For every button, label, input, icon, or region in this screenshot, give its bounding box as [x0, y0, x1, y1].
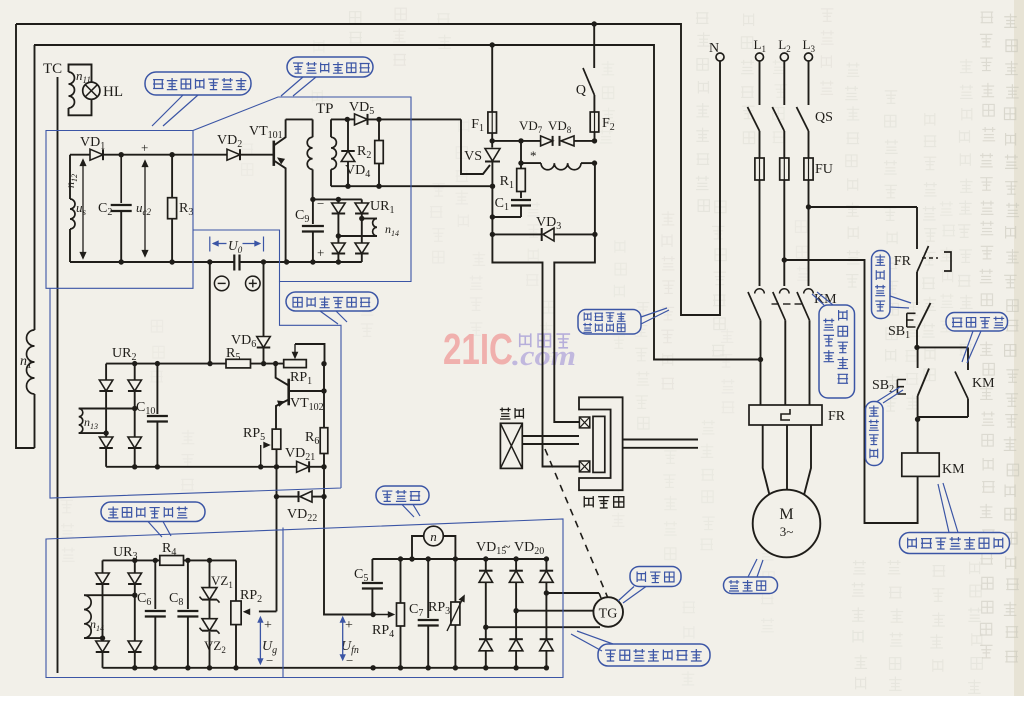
motor M	[753, 490, 821, 558]
fuse FU L1	[755, 158, 764, 180]
wire F1 drop	[490, 42, 495, 112]
wire TP sec top	[331, 118, 347, 120]
capacitor C8	[169, 560, 198, 667]
switch QS pole L3	[797, 107, 809, 158]
svg-text:+: +	[317, 245, 324, 260]
fuse F2	[590, 112, 615, 141]
zener VZ1	[200, 560, 233, 602]
thyristor VS	[464, 149, 500, 187]
wire preamp top rail	[106, 361, 226, 366]
wire feedback drop	[244, 449, 277, 615]
diode VD21	[285, 446, 324, 472]
rectifier UR2	[99, 346, 141, 467]
svg-text:FU: FU	[815, 162, 833, 177]
label Ug	[258, 617, 277, 669]
resistor R3	[168, 155, 194, 262]
label load	[500, 408, 524, 419]
wire L3 drop	[808, 61, 810, 105]
wire bottom rail	[103, 665, 550, 670]
svg-text:.com: .com	[512, 341, 576, 372]
wire L3 mid	[806, 180, 811, 286]
fuse F1	[471, 112, 496, 134]
capacitor C1	[490, 192, 531, 220]
wire clutch feed B	[492, 234, 579, 466]
diode VD5	[349, 100, 374, 125]
resistor R4	[160, 541, 184, 565]
capacitor U0 series	[234, 255, 286, 271]
svg-text:−: −	[346, 653, 353, 668]
capacitor C5	[354, 559, 383, 615]
capacitor C6	[137, 560, 166, 667]
wire given top rail	[103, 558, 160, 563]
resistor R2	[357, 119, 383, 186]
wire TC primary left	[16, 24, 35, 448]
diode VD8	[548, 118, 574, 146]
clutch body	[579, 397, 623, 490]
terminal L3	[803, 37, 816, 61]
svg-text:−: −	[317, 196, 324, 211]
resistor R5	[226, 346, 251, 368]
wire TG tap lower	[486, 626, 600, 628]
callout prime-mover label	[724, 559, 778, 594]
callout tach-gen label	[618, 567, 681, 604]
block bottom boxes	[46, 519, 563, 678]
wire TG tap upper	[546, 593, 601, 598]
svg-text:TP: TP	[316, 101, 334, 117]
wire VD22 row	[274, 494, 324, 499]
svg-text:QS: QS	[815, 110, 833, 125]
terminal L2	[778, 37, 790, 61]
wire preamp bottom rail	[106, 464, 297, 469]
polarity minus circle	[214, 276, 229, 291]
contactor KM main contacts	[748, 289, 837, 321]
potentiometer RP5	[243, 426, 281, 469]
wire KM coil return	[784, 260, 917, 523]
wire VD2 to VT101 base	[240, 154, 274, 156]
wire L2 mid	[782, 180, 787, 286]
terminal N	[709, 41, 724, 61]
wire F1 to VS	[490, 133, 495, 148]
resistor R6	[305, 391, 328, 467]
wire L1 drop	[759, 61, 761, 105]
wire to Ufn plus	[324, 497, 376, 618]
wire L1 second rail	[34, 45, 761, 360]
wire clutch feed A	[554, 234, 595, 422]
callout given-voltage label	[101, 502, 205, 537]
label U0 guides	[210, 237, 264, 256]
wire L2 drop	[783, 61, 785, 105]
transformer TP primary	[307, 101, 333, 199]
wire N top rail	[16, 24, 720, 315]
wire R4 right	[184, 558, 237, 563]
svg-text:KM: KM	[972, 376, 995, 391]
svg-text:Q: Q	[576, 83, 586, 98]
diode VD3	[536, 215, 561, 241]
diode VD4	[341, 119, 370, 186]
contact KM self-lock	[955, 372, 995, 418]
transformer TC core	[43, 61, 62, 673]
wire sawtooth top	[70, 152, 227, 157]
wire L2 low	[784, 320, 786, 405]
wire R6 low	[321, 464, 326, 499]
block phase-shift box	[193, 97, 411, 282]
svg-text:N: N	[709, 41, 719, 56]
wire VS cathode	[491, 186, 493, 234]
rectifier UR3	[96, 545, 142, 668]
label uc2 arrow	[136, 140, 151, 257]
svg-text:+: +	[264, 618, 272, 633]
svg-text:M: M	[779, 506, 793, 523]
svg-text:~: ~	[503, 540, 511, 555]
wire U0 plus drop	[261, 262, 266, 366]
switch Q	[576, 68, 595, 112]
wire trigger rail	[345, 117, 461, 122]
rectifier right leg	[540, 559, 554, 668]
label Ufn	[340, 617, 359, 669]
arrow RP4 wiper	[373, 612, 394, 618]
svg-text:FR: FR	[828, 409, 846, 424]
clutch armature	[593, 416, 605, 472]
wire VS gate	[461, 119, 490, 174]
rheostat RP3	[428, 559, 465, 668]
label VD15-20	[476, 540, 544, 557]
shaft load-clutch	[522, 436, 579, 444]
callout sawtooth label	[145, 72, 251, 126]
svg-text:3~: 3~	[780, 524, 794, 539]
block sawtooth box	[46, 131, 193, 289]
label FU	[815, 162, 833, 177]
clutch coil lower	[579, 461, 589, 472]
callout tach-meter label	[376, 486, 429, 517]
callout stop-button label	[872, 251, 912, 319]
diode VD22	[287, 491, 317, 524]
wire FR to SB1	[916, 272, 918, 305]
transistor VT102	[276, 364, 324, 430]
meter n	[412, 526, 455, 559]
rectifier mid leg	[509, 559, 522, 668]
wire diode row	[492, 138, 597, 143]
svg-text:+: +	[141, 140, 148, 155]
svg-text:n: n	[430, 529, 437, 544]
callout self-lock label	[946, 313, 1008, 364]
contact FR normally-closed	[894, 245, 951, 272]
label n12	[63, 174, 79, 188]
wire sawtooth bottom	[70, 259, 234, 264]
rectifier UR1	[332, 199, 395, 262]
svg-text:HL: HL	[103, 84, 123, 100]
capacitor C9	[295, 196, 324, 262]
wire tach top rail	[372, 556, 549, 561]
label us arrow	[76, 159, 87, 259]
coil KM	[902, 419, 965, 477]
svg-text:FR: FR	[894, 254, 912, 269]
callout speed-feedback label	[571, 631, 710, 666]
wire C9 UR1 top	[310, 197, 362, 202]
svg-text:−: −	[266, 653, 273, 668]
clutch coil upper	[579, 417, 589, 428]
wire TG tap middle	[516, 610, 593, 612]
fuse FU L2	[780, 158, 789, 180]
capacitor C2	[98, 155, 132, 262]
wire L1 low	[758, 320, 763, 405]
callout start-button label	[866, 387, 904, 466]
terminal L1	[754, 37, 766, 61]
transistor VT101	[249, 119, 286, 262]
transformer TP secondary	[331, 119, 336, 186]
diode VD6	[231, 333, 270, 364]
switch QS pole L2	[772, 107, 784, 158]
winding n14 trigger	[338, 219, 399, 239]
wire collector to TP	[286, 118, 313, 120]
fuse FU L3	[804, 158, 813, 180]
winding n1	[20, 45, 35, 448]
wire Q drop	[592, 21, 597, 68]
svg-text:TC: TC	[43, 61, 62, 77]
winding n11	[69, 65, 92, 116]
callout coil label	[900, 483, 1010, 554]
wire KM aux join	[918, 416, 968, 418]
resistor R1	[500, 163, 526, 191]
node SB1 out	[914, 345, 919, 350]
wire L3 low	[809, 320, 811, 405]
wire to KM aux	[917, 347, 968, 370]
button SB2 start	[872, 347, 929, 422]
mech link dashed	[545, 449, 608, 597]
wire VD3 right drop	[594, 162, 596, 234]
callout main-contact label	[812, 292, 855, 398]
svg-text:KM: KM	[942, 462, 965, 477]
capacitor C7	[409, 559, 439, 668]
wire preamp plus rail	[284, 259, 362, 264]
relay FR heater box	[749, 405, 846, 425]
capacitor C10	[136, 364, 168, 467]
tach generator TG	[593, 597, 623, 627]
wire L1 mid	[759, 180, 761, 286]
svg-text:*: *	[530, 148, 537, 163]
svg-text:VS: VS	[464, 149, 482, 164]
rectifier VD15-VD20 left leg	[479, 559, 493, 668]
potentiometer RP1	[284, 344, 325, 387]
diode VD1	[80, 135, 105, 160]
zener VZ2	[200, 600, 226, 668]
wire preamp out rail	[321, 361, 326, 394]
diode VD7	[519, 118, 553, 146]
potentiometer RP4	[372, 559, 405, 668]
lamp HL	[83, 82, 123, 100]
diode VD2	[217, 133, 242, 160]
load box	[500, 423, 522, 468]
wire VD3 rail	[490, 232, 598, 237]
block preamp box	[50, 282, 341, 499]
wire motor leads	[763, 425, 811, 495]
svg-text:TG: TG	[599, 607, 618, 622]
label QS	[815, 110, 833, 125]
winding n13	[79, 409, 135, 434]
inductor row	[518, 141, 597, 170]
winding n12	[70, 155, 75, 262]
switch QS pole L1	[748, 107, 760, 158]
winding n14 given	[84, 595, 135, 638]
callout phase-shift label	[281, 57, 373, 96]
wire R5 to RP1	[251, 361, 284, 366]
potentiometer RP2	[231, 560, 262, 670]
wire U0 minus drop	[209, 262, 211, 364]
shaft clutch-right	[623, 440, 698, 448]
callout clutch-supply label	[578, 308, 669, 334]
polarity plus circle	[246, 276, 261, 291]
svg-text:+: +	[345, 618, 353, 633]
callout preamp label	[286, 292, 378, 324]
wire L3 to FR contact	[809, 207, 918, 245]
button SB1 stop	[888, 303, 931, 347]
label clutch	[584, 496, 624, 508]
svg-text:21IC: 21IC	[443, 325, 513, 374]
wire trigger common	[331, 184, 495, 189]
